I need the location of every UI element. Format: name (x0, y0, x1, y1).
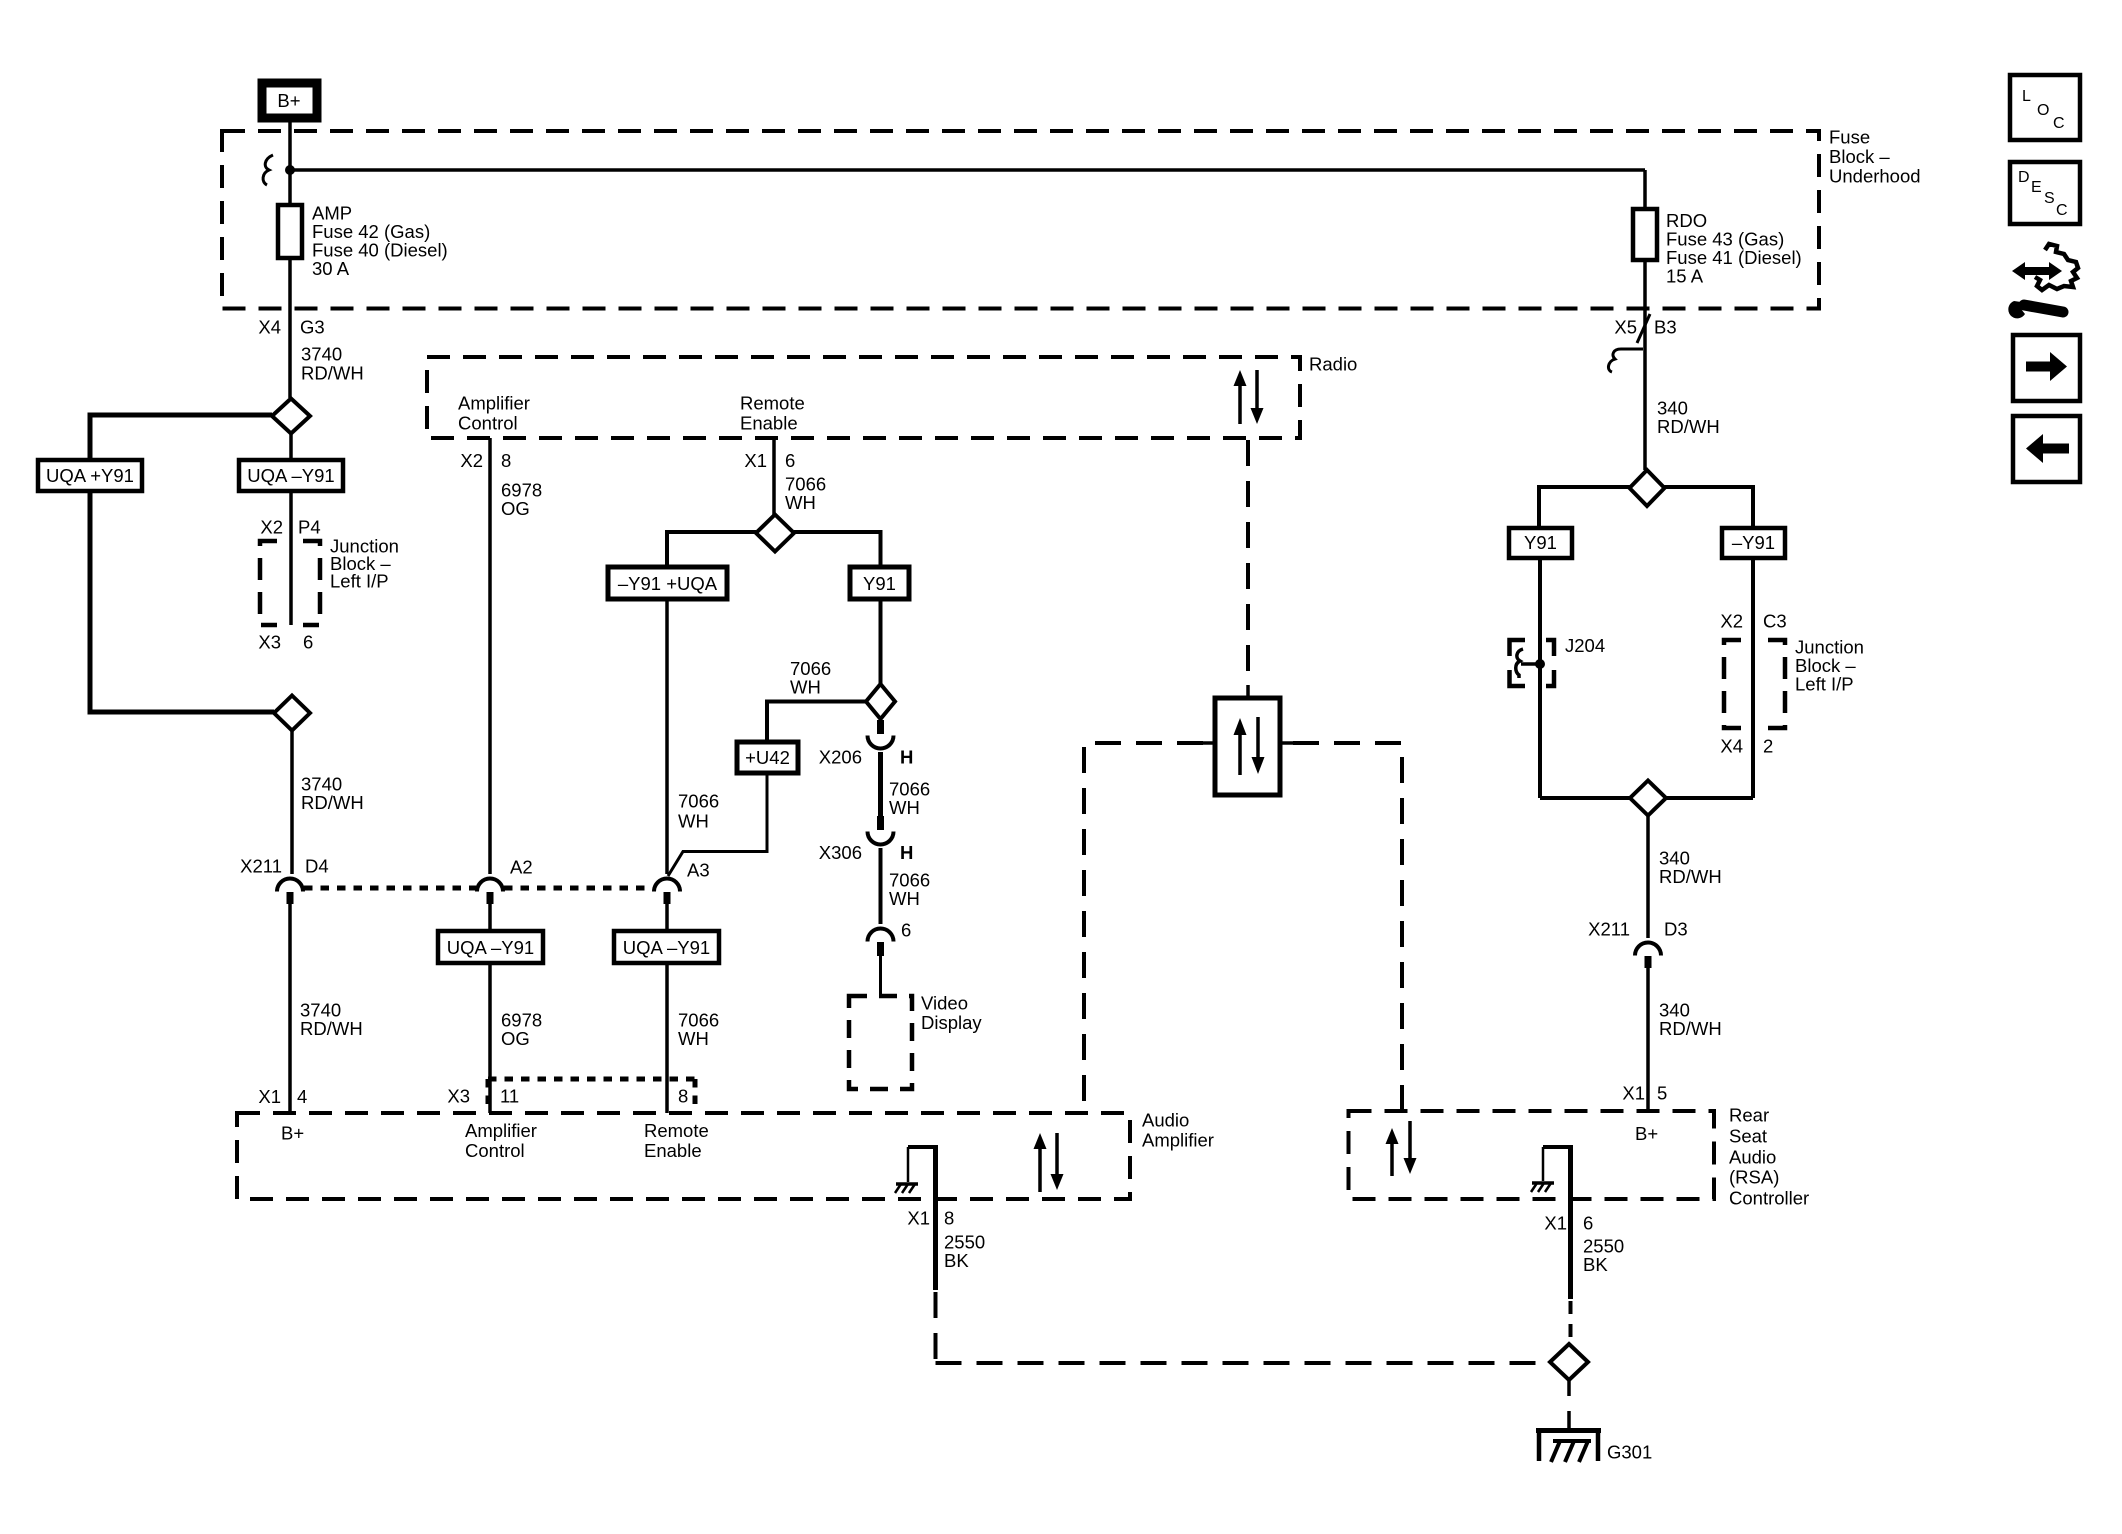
svg-text:D4: D4 (305, 856, 329, 877)
wire label 340 RD/WH (1657, 398, 1720, 438)
svg-text:UQA +Y91: UQA +Y91 (46, 465, 134, 486)
connector X211 D3 (1588, 919, 1688, 969)
pin labels X2 P4 (260, 517, 320, 538)
wire branch to Y91 mid (794, 532, 881, 567)
wire splice to box (289, 434, 293, 461)
svg-text:X2: X2 (260, 517, 283, 538)
svg-text:BK: BK (1583, 1254, 1608, 1275)
svg-text:8: 8 (678, 1086, 688, 1107)
pin labels X3 6 (258, 632, 313, 653)
fuse AMP Fuse 42 (278, 203, 448, 280)
svg-text:+U42: +U42 (745, 747, 790, 768)
rsa continue arrows (1386, 1121, 1417, 1176)
svg-text:Video: Video (921, 993, 968, 1014)
wire label 3740 RD/WH 3 (300, 1000, 363, 1040)
battery terminal B+ (262, 83, 317, 118)
pin labels X1 6 (744, 450, 795, 471)
fuse block underhood dashed box (222, 131, 1819, 309)
svg-text:Amplifier: Amplifier (465, 1120, 537, 1141)
wire D4 to amplifier (288, 904, 292, 1113)
wire main bus (290, 168, 1645, 172)
svg-text:6: 6 (1583, 1213, 1593, 1234)
svg-text:X306: X306 (819, 842, 862, 863)
audio amplifier dashed box (237, 1113, 1130, 1199)
rsa controller dashed box (1349, 1111, 1715, 1199)
svg-text:Enable: Enable (740, 413, 798, 434)
pin labels X1 5 (1622, 1083, 1667, 1104)
svg-text:X3: X3 (258, 632, 281, 653)
dotted bus X211 to A2 to A3 (304, 886, 651, 891)
wire to video display (879, 956, 882, 996)
svg-text:–Y91 +UQA: –Y91 +UQA (618, 573, 718, 594)
svg-text:7066: 7066 (678, 791, 719, 812)
svg-text:P4: P4 (298, 517, 321, 538)
svg-text:UQA –Y91: UQA –Y91 (447, 937, 534, 958)
svg-text:UQA –Y91: UQA –Y91 (247, 465, 334, 486)
wire label 7066 WH 5 (889, 779, 930, 819)
svg-text:X1: X1 (907, 1208, 930, 1229)
pin labels X2 C3 (1720, 611, 1786, 632)
svg-text:X4: X4 (1720, 736, 1743, 757)
wire label 7066 WH 2 (790, 658, 831, 698)
label Video Display (921, 993, 982, 1034)
wire label 7066 WH 6 (889, 870, 930, 910)
svg-text:6: 6 (901, 920, 911, 941)
code box -Y91 (1722, 528, 1785, 558)
wire -Y91 down through junction block (1751, 558, 1755, 798)
svg-text:2: 2 (1763, 736, 1773, 757)
wire left loop lower (90, 491, 274, 712)
pin labels X1 4 (258, 1086, 307, 1107)
wire amplifier control (488, 438, 492, 874)
wire S4 down to X206 (879, 719, 883, 731)
svg-text:Rear: Rear (1729, 1105, 1769, 1126)
svg-text:J204: J204 (1565, 635, 1605, 656)
wire label 3740 RD/WH 2 (301, 774, 364, 814)
label Junction Block Left IP right (1795, 637, 1864, 695)
svg-text:Y91: Y91 (1524, 532, 1557, 553)
wire label 6978 OG (501, 480, 542, 520)
svg-text:OG: OG (501, 1028, 530, 1049)
svg-text:11: 11 (500, 1086, 519, 1107)
svg-text:S: S (2044, 190, 2055, 207)
svg-text:Y91: Y91 (863, 573, 896, 594)
connector A2 (477, 857, 533, 905)
svg-text:Left I/P: Left I/P (1795, 674, 1854, 695)
svg-text:D3: D3 (1664, 919, 1688, 940)
svg-text:RD/WH: RD/WH (301, 792, 364, 813)
svg-text:X4: X4 (258, 317, 281, 338)
svg-text:G301: G301 (1607, 1442, 1652, 1463)
sidebar DESC button (2010, 162, 2080, 224)
svg-text:H: H (900, 747, 913, 768)
wire label 340 RD/WH 3 (1659, 1000, 1722, 1040)
connector X306 (819, 816, 914, 863)
wire label 7066 WH 4 (678, 1010, 719, 1050)
label Remote Enable (740, 393, 805, 434)
audio amp internal ground (895, 1147, 938, 1290)
svg-text:WH: WH (785, 492, 816, 513)
svg-text:A2: A2 (510, 857, 533, 878)
svg-text:UQA –Y91: UQA –Y91 (623, 937, 710, 958)
pin labels X3 11 (447, 1086, 519, 1107)
splice pack J204 (1510, 635, 1606, 686)
wire through AMP fuse down to splice (288, 170, 292, 398)
junction block right brackets (1724, 640, 1785, 728)
wire X206 to X306 (878, 752, 883, 816)
wire branch to -Y91 (1665, 487, 1754, 528)
connector X206 (819, 720, 914, 768)
svg-text:E: E (2031, 179, 2042, 196)
svg-text:6: 6 (303, 632, 313, 653)
svg-text:X2: X2 (460, 450, 483, 471)
svg-text:X206: X206 (819, 747, 862, 768)
wire RDO drop (1643, 170, 1647, 470)
svg-text:6: 6 (785, 450, 795, 471)
svg-text:8: 8 (944, 1208, 954, 1229)
svg-text:Control: Control (465, 1140, 525, 1161)
svg-text:X211: X211 (240, 856, 282, 877)
code box -Y91 +UQA (608, 567, 727, 599)
label Fuse Block Underhood (1829, 127, 1921, 187)
svg-text:5: 5 (1657, 1083, 1667, 1104)
wire label 2550 BK rsa (1583, 1236, 1624, 1276)
label Remote Enable pin (644, 1120, 709, 1161)
splice diamond S2 (274, 696, 310, 731)
code box +U42 (737, 742, 798, 773)
svg-text:Amplifier: Amplifier (458, 393, 530, 414)
wire S5 to ground (1567, 1380, 1571, 1428)
svg-text:15 A: 15 A (1666, 266, 1704, 287)
svg-text:3740: 3740 (301, 344, 342, 365)
pin labels X4 2 (1720, 736, 1773, 757)
svg-text:Radio: Radio (1309, 354, 1357, 375)
sidebar next arrow button (2013, 335, 2080, 401)
pin labels X4 G3 (258, 317, 324, 338)
code box Y91 mid (850, 567, 909, 599)
fusible-link curl (263, 155, 273, 185)
svg-text:Display: Display (921, 1012, 982, 1033)
svg-text:WH: WH (889, 888, 920, 909)
splice diamond S1 (272, 399, 310, 434)
label Junction Block Left IP (330, 536, 399, 592)
pin labels X2 8 (460, 450, 511, 471)
dashed wire to audio amplifier (1084, 743, 1203, 1113)
dashed wire to rsa (1293, 743, 1402, 1111)
splice diamond S5 (1550, 1344, 1588, 1380)
wire branch to +U42 (767, 702, 866, 743)
svg-text:X2: X2 (1720, 611, 1743, 632)
svg-text:–Y91: –Y91 (1732, 532, 1775, 553)
svg-text:Left I/P: Left I/P (330, 571, 389, 592)
svg-text:8: 8 (501, 450, 511, 471)
splice diamond S3 (756, 515, 794, 552)
wire label 2550 BK (944, 1232, 985, 1272)
sidebar back arrow button (2013, 416, 2080, 482)
svg-text:C: C (2056, 202, 2068, 219)
wire label 340 RD/WH 2 (1659, 848, 1722, 888)
svg-text:L: L (2022, 88, 2031, 105)
wire S2 down (290, 731, 294, 875)
svg-text:WH: WH (889, 797, 920, 818)
svg-text:X1: X1 (744, 450, 767, 471)
svg-text:4: 4 (297, 1086, 307, 1107)
video display dashed box (849, 996, 912, 1089)
svg-text:Controller: Controller (1729, 1188, 1809, 1209)
ground G301 (1536, 1428, 1652, 1463)
code box Y91 (1509, 528, 1572, 558)
wire label 7066 WH (785, 474, 826, 514)
svg-text:Audio: Audio (1142, 1110, 1189, 1131)
svg-text:Fuse: Fuse (1829, 127, 1870, 148)
svg-text:WH: WH (678, 811, 709, 832)
wire Y91 down (1538, 558, 1542, 798)
svg-text:(RSA): (RSA) (1729, 1167, 1779, 1188)
svg-text:OG: OG (501, 498, 530, 519)
wire B+ drop (288, 120, 292, 170)
svg-text:X3: X3 (447, 1086, 470, 1107)
connector 6 video (868, 929, 894, 956)
svg-text:O: O (2037, 102, 2049, 119)
svg-text:H: H (900, 842, 913, 863)
dashed wire rsa ground down (1569, 1301, 1573, 1344)
svg-text:D: D (2018, 169, 2030, 186)
svg-text:B+: B+ (1635, 1123, 1658, 1144)
svg-text:WH: WH (678, 1028, 709, 1049)
wire -Y91+UQA down to A3 (665, 599, 669, 874)
code box UQA -Y91 (239, 460, 343, 491)
svg-text:C3: C3 (1763, 611, 1787, 632)
svg-text:Enable: Enable (644, 1140, 702, 1161)
svg-text:A3: A3 (687, 860, 710, 881)
wire left loop upper (90, 415, 272, 460)
label Rear Seat Audio RSA Controller (1729, 1105, 1809, 1209)
fuse RDO Fuse 43 (1633, 209, 1802, 287)
svg-text:RD/WH: RD/WH (1657, 416, 1720, 437)
svg-text:B+: B+ (277, 90, 300, 111)
wire box to junction block (289, 491, 293, 625)
wire X306 down (879, 848, 883, 924)
svg-text:Amplifier: Amplifier (1142, 1130, 1214, 1151)
svg-text:X1: X1 (258, 1086, 281, 1107)
dashed ground run to G301 (936, 1292, 1551, 1363)
svg-text:Seat: Seat (1729, 1126, 1767, 1147)
svg-text:Remote: Remote (740, 393, 805, 414)
dotted link X3-11 to 8 (488, 1079, 695, 1111)
rsa internal ground (1531, 1147, 1573, 1299)
connector A3 (654, 860, 710, 905)
wire D3 to RSA (1646, 968, 1650, 1111)
node junction dot (285, 165, 295, 175)
svg-text:RD/WH: RD/WH (301, 363, 364, 384)
svg-text:X1: X1 (1622, 1083, 1645, 1104)
svg-text:X1: X1 (1544, 1213, 1567, 1234)
radio dashed box (427, 357, 1300, 438)
svg-text:B3: B3 (1654, 317, 1677, 338)
code box UQA -Y91 mid1 (438, 904, 543, 1113)
wire S7 down (1646, 816, 1650, 939)
code box UQA -Y91 mid2 (614, 904, 719, 1113)
svg-text:Remote: Remote (644, 1120, 709, 1141)
wire remote enable upper (772, 438, 776, 515)
label Amplifier Control pin (465, 1120, 537, 1161)
sidebar wrench icon (2008, 244, 2078, 318)
junction block left IP brackets (260, 541, 320, 625)
svg-text:C: C (2053, 115, 2065, 132)
connector X211 D4 (240, 856, 329, 905)
svg-text:X211: X211 (1588, 919, 1630, 940)
wire label 3740 RD/WH (301, 344, 364, 384)
code box UQA +Y91 (38, 460, 142, 491)
svg-text:RD/WH: RD/WH (1659, 866, 1722, 887)
wire label 7066 WH 3 (678, 791, 719, 832)
splice diamond S4 (866, 684, 895, 719)
sidebar LOC button (2010, 75, 2080, 140)
svg-text:BK: BK (944, 1250, 969, 1271)
label Amplifier Control (458, 393, 530, 434)
svg-text:Block –: Block – (1829, 146, 1890, 167)
label Audio Amplifier (1142, 1110, 1214, 1151)
svg-text:Control: Control (458, 413, 518, 434)
svg-text:Underhood: Underhood (1829, 166, 1921, 187)
svg-text:WH: WH (790, 677, 821, 698)
wire branch to Y91 (1539, 487, 1630, 528)
continue symbol box (1203, 685, 1293, 795)
connector X5 B3 tick (1608, 314, 1676, 372)
svg-text:30 A: 30 A (312, 258, 350, 279)
dashed wire radio down (1246, 440, 1250, 685)
wire branch to -Y91 +UQA (667, 532, 756, 567)
svg-text:G3: G3 (300, 317, 325, 338)
pin labels X1 8 (907, 1208, 954, 1229)
svg-text:B+: B+ (281, 1123, 304, 1144)
wire bottom joins (1540, 796, 1753, 800)
wire Y91 to S4 (879, 599, 883, 684)
radio continue arrows (1234, 370, 1264, 424)
svg-text:RD/WH: RD/WH (300, 1018, 363, 1039)
svg-text:X5: X5 (1614, 317, 1637, 338)
audio amp continue arrows (1034, 1133, 1064, 1192)
svg-text:Audio: Audio (1729, 1147, 1776, 1168)
wire label 6978 OG 2 (501, 1010, 542, 1050)
splice diamond S7 (1630, 781, 1666, 816)
wire +U42 down to A3 (668, 773, 767, 876)
svg-text:RD/WH: RD/WH (1659, 1018, 1722, 1039)
pin labels X1 6 rsa (1544, 1213, 1593, 1234)
splice diamond S6 (1630, 470, 1665, 506)
